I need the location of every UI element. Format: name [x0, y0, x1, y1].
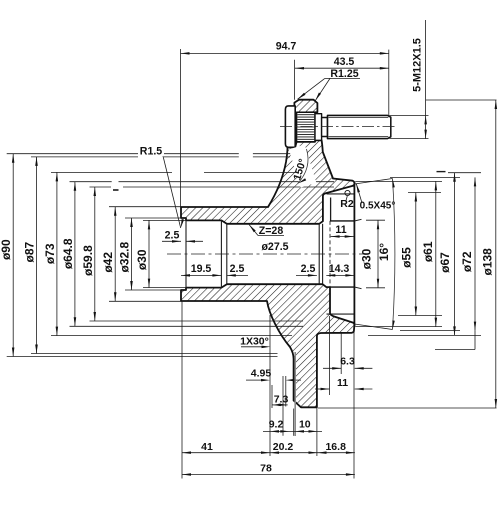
svg-text:14.3: 14.3	[329, 263, 350, 275]
svg-text:16°: 16°	[377, 243, 391, 261]
svg-text:7.3: 7.3	[274, 394, 289, 406]
svg-text:1X30°: 1X30°	[240, 336, 269, 348]
svg-text:ø64.8: ø64.8	[61, 238, 75, 269]
svg-text:ø67: ø67	[438, 252, 452, 273]
svg-text:78: 78	[260, 463, 272, 475]
svg-text:19.5: 19.5	[191, 263, 212, 275]
svg-text:ø61: ø61	[421, 241, 435, 262]
svg-text:ø59.8: ø59.8	[81, 245, 95, 276]
svg-text:6.3: 6.3	[340, 356, 355, 368]
svg-text:Z=28: Z=28	[259, 225, 284, 237]
svg-text:0.5X45°: 0.5X45°	[360, 201, 396, 212]
svg-text:43.5: 43.5	[334, 56, 355, 68]
svg-text:10: 10	[299, 418, 311, 430]
svg-text:ø32.8: ø32.8	[118, 242, 132, 273]
svg-text:20.2: 20.2	[273, 441, 294, 453]
svg-text:R1.5: R1.5	[140, 145, 162, 157]
svg-text:ø55: ø55	[399, 247, 413, 268]
svg-text:R2: R2	[340, 198, 354, 210]
svg-text:ø30: ø30	[135, 249, 149, 270]
svg-text:ø72: ø72	[460, 251, 474, 272]
svg-text:ø42: ø42	[101, 252, 115, 273]
svg-text:2.5: 2.5	[165, 229, 180, 241]
svg-text:16.8: 16.8	[325, 441, 346, 453]
svg-text:11: 11	[335, 224, 346, 236]
svg-text:9.2: 9.2	[269, 418, 284, 430]
svg-text:ø138: ø138	[481, 248, 495, 276]
svg-text:ø87: ø87	[23, 241, 37, 262]
svg-text:ø73: ø73	[43, 243, 57, 264]
svg-text:11: 11	[337, 377, 348, 389]
svg-text:ø90: ø90	[0, 239, 13, 260]
svg-text:2.5: 2.5	[301, 263, 316, 275]
svg-text:2.5: 2.5	[230, 263, 245, 275]
svg-text:5-M12X1.5: 5-M12X1.5	[411, 38, 423, 92]
svg-text:ø30: ø30	[360, 248, 374, 269]
svg-text:94.7: 94.7	[276, 41, 297, 53]
svg-text:ø27.5: ø27.5	[261, 241, 288, 253]
svg-text:4.95: 4.95	[251, 368, 272, 380]
svg-text:41: 41	[201, 441, 213, 453]
